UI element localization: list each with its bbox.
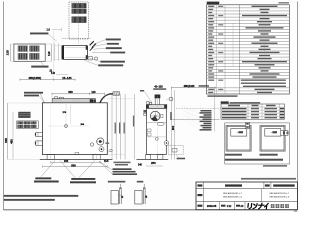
left side view label bbox=[24, 92, 43, 94]
label leader top-left bbox=[40, 93, 45, 103]
rear grille bbox=[17, 121, 39, 129]
480 dim bbox=[171, 87, 215, 89]
svg-text:455: 455 bbox=[9, 139, 13, 144]
leaders to bottom labels bbox=[41, 161, 55, 177]
raised top plate with louvers bbox=[52, 99, 95, 103]
side centerline bbox=[156, 94, 158, 159]
svg-text:41~118: 41~118 bbox=[154, 85, 163, 88]
stacked part labels bbox=[201, 110, 212, 112]
bottom label A bbox=[35, 177, 51, 179]
bottom label block C bbox=[113, 168, 132, 170]
dark block (flue box rear) bbox=[18, 112, 30, 118]
left pipe stubs bbox=[36, 132, 43, 136]
svg-text:230: 230 bbox=[64, 159, 69, 163]
svg-text:550: 550 bbox=[71, 163, 76, 167]
label: exhaust outlet bbox=[31, 66, 48, 68]
knob small bbox=[99, 147, 104, 152]
bottom dims bbox=[51, 161, 100, 163]
drain elbow small bbox=[110, 149, 113, 152]
side body inner rects bbox=[148, 129, 152, 132]
installation diagram at 225.8 bbox=[226, 125, 252, 127]
top small stubs bbox=[55, 97, 58, 99]
svg-text:800: 800 bbox=[171, 125, 175, 130]
side view body bbox=[147, 108, 167, 154]
ground line bbox=[40, 158, 113, 160]
pilot window bbox=[65, 125, 68, 128]
side cap stubs bbox=[147, 101, 149, 104]
accessory B bbox=[137, 181, 144, 183]
flue collar bbox=[155, 95, 161, 99]
legs bbox=[145, 155, 150, 160]
installation diagram at 259.8 bbox=[260, 125, 286, 127]
right knob side bbox=[164, 141, 169, 146]
flue level dash-dot bbox=[62, 37, 91, 39]
svg-text:350: 350 bbox=[68, 90, 73, 94]
note line 1 bbox=[4, 195, 79, 197]
blower circle bbox=[150, 111, 160, 121]
svg-text:RBF-A80S2N-RR-L-S: RBF-A80S2N-RR-L-S bbox=[269, 195, 290, 198]
bottom access detail bbox=[75, 152, 79, 154]
Rinnai logo strokes bbox=[248, 203, 268, 208]
right dim verticals bbox=[171, 88, 173, 159]
label: exhaust duct top bbox=[30, 33, 48, 35]
front view body bbox=[42, 103, 107, 155]
hook circle bbox=[169, 97, 173, 101]
gas valve knob big bbox=[97, 138, 104, 145]
sheet border right bbox=[296, 2, 298, 210]
dim row 450(1450) / 15-130 bbox=[20, 79, 75, 81]
svg-text:15~130: 15~130 bbox=[62, 76, 72, 80]
drain dashed rect bbox=[168, 145, 183, 154]
svg-text:RBF-A80SN-RR-L-S: RBF-A80SN-RR-L-S bbox=[223, 195, 243, 198]
left vertical dims bbox=[7, 103, 9, 159]
title spec1 bbox=[207, 2, 220, 5]
box bottom note bbox=[225, 159, 284, 161]
installation examples box bbox=[225, 123, 290, 164]
note under table1 bbox=[208, 95, 238, 97]
svg-text:140: 140 bbox=[51, 72, 56, 75]
sheet border left bbox=[2, 2, 4, 210]
svg-text:250: 250 bbox=[151, 161, 156, 165]
duct centerline bbox=[78, 1, 80, 44]
top view: exhaust grille bbox=[14, 44, 45, 61]
interior dashed lines + dims bbox=[65, 104, 67, 124]
side view cap bbox=[146, 105, 167, 109]
accessory A bbox=[108, 181, 126, 183]
svg-text:120: 120 bbox=[91, 91, 96, 94]
note below box bbox=[263, 165, 287, 167]
unit top view bbox=[62, 45, 88, 59]
svg-text:450(1450): 450(1450) bbox=[28, 76, 41, 80]
flue duct (dashed) bbox=[69, 2, 89, 39]
mid details bbox=[147, 121, 167, 123]
svg-text:2016.05: 2016.05 bbox=[207, 204, 217, 208]
title block bbox=[196, 182, 297, 210]
left stubs bbox=[144, 110, 147, 112]
svg-text:118: 118 bbox=[47, 51, 51, 56]
bottom label B bbox=[71, 178, 95, 180]
ground bbox=[137, 158, 169, 160]
side stub circle bbox=[94, 57, 97, 60]
overflow pipe curved bbox=[100, 94, 113, 103]
svg-text:215: 215 bbox=[6, 50, 10, 55]
spec table 2 bbox=[221, 104, 285, 119]
svg-text:605: 605 bbox=[4, 138, 8, 143]
front view top dims bbox=[52, 93, 105, 95]
svg-text:RBF-A80S2N-RR-L-T: RBF-A80S2N-RR-L-T bbox=[269, 192, 290, 195]
svg-text:1:12: 1:12 bbox=[227, 206, 232, 208]
text above title block bbox=[241, 178, 296, 180]
dashed level lines bbox=[176, 107, 221, 109]
small circle right bbox=[90, 143, 93, 146]
legs bbox=[47, 155, 54, 160]
duct hatch band 2 bbox=[72, 17, 87, 23]
ref texts right-bottom bbox=[114, 162, 131, 164]
callout labels (right of top view) bbox=[106, 39, 121, 41]
note line 2 bbox=[4, 199, 55, 201]
right vertical dims bbox=[111, 94, 113, 159]
svg-text:480(1420: 480(1420 bbox=[184, 84, 196, 88]
sheet border bottom bbox=[3, 209, 297, 211]
svg-text:15.5: 15.5 bbox=[104, 161, 109, 163]
vertical dim near labels bbox=[213, 88, 215, 132]
connector stubs (diagonal) bbox=[90, 41, 94, 45]
svg-text:RBF-A80SN-RR-L-T: RBF-A80SN-RR-L-T bbox=[223, 192, 243, 195]
duct hatch band 1 bbox=[72, 3, 87, 8]
